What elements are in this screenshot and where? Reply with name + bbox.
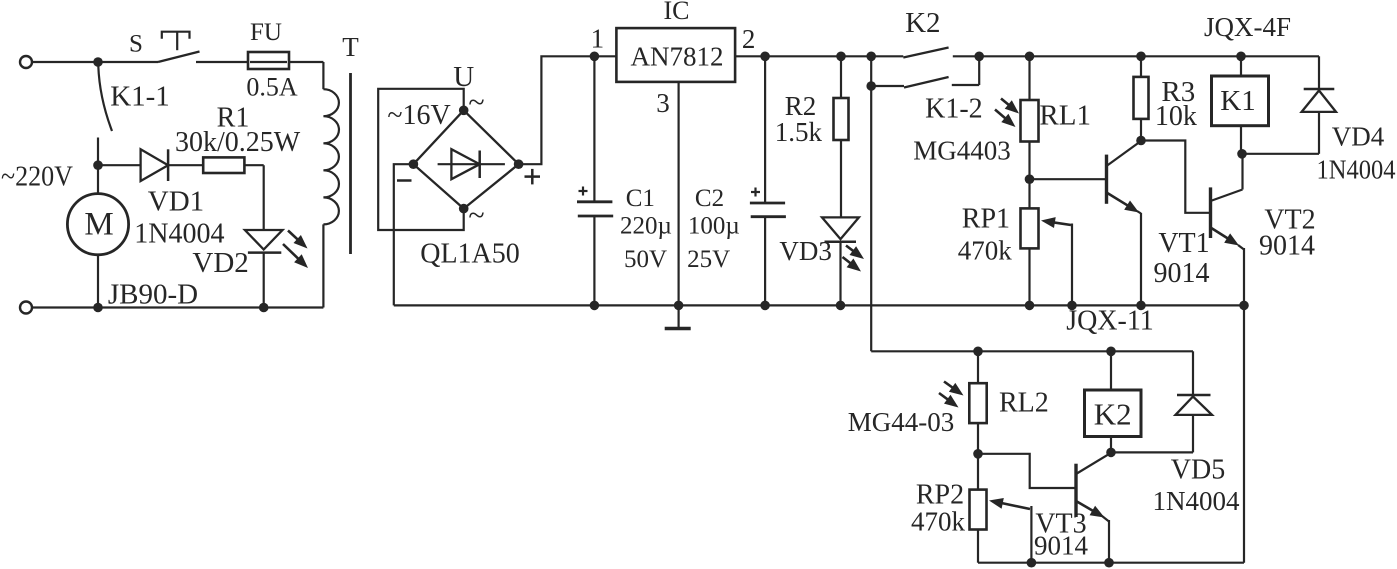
svg-text:100µ: 100µ <box>688 213 740 240</box>
svg-text:9014: 9014 <box>1034 530 1089 560</box>
svg-text:M: M <box>84 207 113 243</box>
svg-text:VT1: VT1 <box>1158 228 1209 259</box>
svg-text:JB90-D: JB90-D <box>108 279 198 311</box>
svg-text:220µ: 220µ <box>620 213 672 240</box>
svg-text:30k/0.25W: 30k/0.25W <box>175 127 301 158</box>
svg-text:VD2: VD2 <box>192 247 248 279</box>
svg-text:1N4004: 1N4004 <box>134 219 224 250</box>
svg-text:RL1: RL1 <box>1039 99 1091 131</box>
svg-text:JQX-11: JQX-11 <box>1066 306 1154 337</box>
svg-text:JQX-4F: JQX-4F <box>1204 12 1291 42</box>
svg-text:MG44-03: MG44-03 <box>848 407 955 437</box>
svg-text:VD3: VD3 <box>779 236 832 266</box>
svg-text:9014: 9014 <box>1154 258 1210 289</box>
svg-text:VD4: VD4 <box>1332 122 1385 152</box>
svg-text:3: 3 <box>656 88 670 118</box>
svg-text:VD5: VD5 <box>1171 454 1225 485</box>
svg-text:~: ~ <box>468 86 484 119</box>
svg-text:~220V: ~220V <box>1 162 73 193</box>
svg-text:470k: 470k <box>911 506 966 536</box>
svg-text:MG4403: MG4403 <box>913 135 1011 165</box>
svg-text:VD1: VD1 <box>148 186 204 218</box>
svg-text:0.5A: 0.5A <box>246 73 298 102</box>
svg-text:25V: 25V <box>687 246 730 273</box>
svg-text:AN7812: AN7812 <box>631 41 724 71</box>
svg-text:QL1A50: QL1A50 <box>420 239 520 270</box>
svg-text:C2: C2 <box>695 185 724 212</box>
svg-text:10k: 10k <box>1155 101 1197 132</box>
svg-text:RP1: RP1 <box>962 203 1010 234</box>
svg-text:K1-1: K1-1 <box>110 80 170 112</box>
svg-text:~16V: ~16V <box>387 100 450 131</box>
svg-text:9014: 9014 <box>1259 231 1315 262</box>
svg-text:C1: C1 <box>626 185 655 212</box>
svg-text:FU: FU <box>250 19 282 46</box>
svg-text:K2: K2 <box>905 7 940 39</box>
svg-text:1N4004: 1N4004 <box>1317 154 1396 184</box>
svg-text:K1: K1 <box>1220 85 1255 117</box>
svg-text:T: T <box>342 32 359 62</box>
svg-text:1N4004: 1N4004 <box>1153 486 1240 516</box>
svg-text:1: 1 <box>591 24 605 54</box>
svg-text:1.5k: 1.5k <box>775 117 823 147</box>
svg-text:2: 2 <box>742 24 756 54</box>
svg-text:IC: IC <box>664 0 690 25</box>
svg-text:K2: K2 <box>1094 397 1132 432</box>
svg-text:K1-2: K1-2 <box>925 94 983 125</box>
svg-text:S: S <box>129 30 143 57</box>
svg-text:~: ~ <box>468 199 484 232</box>
svg-text:50V: 50V <box>624 246 667 273</box>
svg-text:470k: 470k <box>958 236 1013 266</box>
svg-text:RL2: RL2 <box>999 388 1049 419</box>
